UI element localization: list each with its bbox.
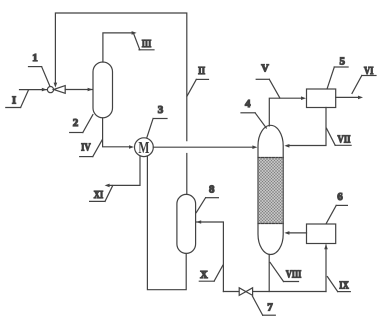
arrow into column right wall <box>284 144 289 148</box>
label II <box>187 66 209 96</box>
label X <box>199 265 223 281</box>
label 6 <box>326 191 347 223</box>
wire pump 3 to column 4 feed <box>153 146 254 148</box>
condenser 5 <box>307 89 336 108</box>
column 4 packing <box>259 158 283 224</box>
wire column 4 top to condenser 5 (stream V) <box>269 98 303 126</box>
label 1 leader <box>29 52 50 86</box>
label III <box>134 33 155 50</box>
svg-text:XI: XI <box>94 190 104 201</box>
svg-text:IV: IV <box>81 142 91 153</box>
arrow down into ejector 1 <box>54 83 58 88</box>
valve 7 (bowtie) <box>239 288 246 296</box>
svg-text:VII: VII <box>338 135 351 146</box>
arrow into condenser 5 <box>301 96 306 100</box>
label IX <box>327 277 350 292</box>
arrow on stream I <box>42 88 47 92</box>
svg-text:VIII: VIII <box>286 270 302 281</box>
wire condenser 5 out to stream VI <box>336 96 360 98</box>
wire into vessel 8 right side (from X riser) <box>196 222 223 292</box>
label 4 <box>241 98 266 128</box>
label 5 <box>327 56 348 89</box>
label V <box>256 64 280 98</box>
column 4 shell <box>258 125 283 254</box>
svg-text:6: 6 <box>337 191 343 203</box>
arrow end of stream VI <box>358 96 363 100</box>
label 3 <box>147 104 167 138</box>
label VII <box>327 128 352 145</box>
label IV <box>80 140 103 157</box>
arrow into pump 3 <box>129 145 134 149</box>
label 2 <box>70 115 93 133</box>
wire condenser 5 bottom reflux to column (stream VII) <box>287 108 326 146</box>
wire bottom header riser to reboiler 6 (stream IX) <box>325 245 327 292</box>
wire vessel8 top segment after crossing break <box>186 154 188 196</box>
svg-text:8: 8 <box>209 183 215 195</box>
arrow into vessel 2 <box>88 88 93 92</box>
label VIII <box>270 262 301 281</box>
reboiler 6 <box>307 224 336 244</box>
arrow into column 4 left wall <box>252 145 257 149</box>
svg-text:X: X <box>200 270 208 281</box>
svg-text:II: II <box>198 66 205 77</box>
label 7 <box>253 296 276 315</box>
stream I feed line <box>20 89 48 91</box>
wire pump left leg to stream XI <box>109 156 140 185</box>
arrow end of stream XI <box>105 184 110 188</box>
svg-text:4: 4 <box>245 98 251 110</box>
svg-text:V: V <box>261 64 269 75</box>
svg-text:M: M <box>138 138 149 157</box>
vessel 8 <box>177 194 196 253</box>
wire pump right leg down, right, up to vessel 8 bottom <box>147 156 186 290</box>
label XI <box>90 186 113 202</box>
svg-text:3: 3 <box>158 104 164 116</box>
arrow up into reboiler 6 <box>324 244 328 249</box>
wire column 4 bottom outlet (stream VIII) <box>268 255 270 292</box>
label I <box>6 90 29 108</box>
svg-text:III: III <box>142 39 152 50</box>
label 8 <box>196 183 218 212</box>
wire ejector to vessel 2 <box>65 89 93 91</box>
svg-text:IX: IX <box>339 280 349 291</box>
label VI <box>352 66 376 93</box>
svg-text:7: 7 <box>267 302 273 314</box>
wire bottom header <box>223 291 326 293</box>
wire reboiler 6 to column right wall <box>287 232 307 234</box>
arrow into column right wall lower <box>284 231 289 235</box>
ejector 1 (circle + nozzle triangle) <box>47 87 53 93</box>
arrow end of stream III <box>132 31 137 35</box>
pump 3 (circle with M) <box>135 138 154 157</box>
wire vessel 2 bottom to pump 3 (stream IV) <box>103 118 131 147</box>
svg-text:2: 2 <box>73 117 79 129</box>
vessel 2 <box>93 62 113 118</box>
wire vessel 2 top to stream III <box>103 33 134 62</box>
wire top recycle loop: vessel8 top, up, left, down to ejector <box>55 13 186 141</box>
arrow into vessel 8 <box>196 220 201 224</box>
svg-text:5: 5 <box>339 56 345 68</box>
svg-text:I: I <box>12 95 16 106</box>
svg-text:1: 1 <box>32 52 38 64</box>
